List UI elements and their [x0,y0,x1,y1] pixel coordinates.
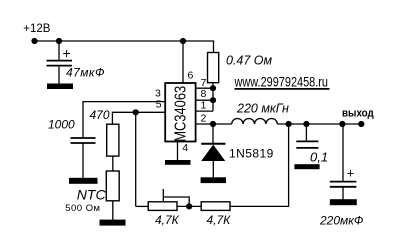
svg-text:NTC: NTC [77,187,107,203]
svg-text:www.299792458.ru: www.299792458.ru [234,74,328,90]
svg-text:выход: выход [342,107,374,119]
svg-text:0,1: 0,1 [310,149,328,164]
svg-text:4,7К: 4,7К [207,213,232,227]
svg-text:1000: 1000 [48,118,75,132]
svg-text:2: 2 [201,112,207,124]
svg-text:470: 470 [90,108,110,122]
svg-text:220мкФ: 220мкФ [319,214,364,228]
svg-text:+12В: +12В [23,23,51,35]
svg-text:5: 5 [156,98,162,110]
svg-text:8: 8 [201,88,207,100]
svg-text:220 мкГн: 220 мкГн [236,102,289,116]
svg-text:0.47 Ом: 0.47 Ом [226,54,273,68]
svg-text:МС34063: МС34063 [173,86,190,142]
svg-text:+: + [63,45,71,61]
svg-text:47мкФ: 47мкФ [66,66,105,80]
svg-text:4: 4 [182,142,188,154]
svg-text:500 Ом: 500 Ом [65,203,100,214]
svg-text:+: + [347,166,355,181]
svg-text:1N5819: 1N5819 [229,147,274,161]
svg-text:1: 1 [201,99,207,111]
svg-text:4,7К: 4,7К [155,213,180,227]
svg-text:6: 6 [188,70,194,82]
